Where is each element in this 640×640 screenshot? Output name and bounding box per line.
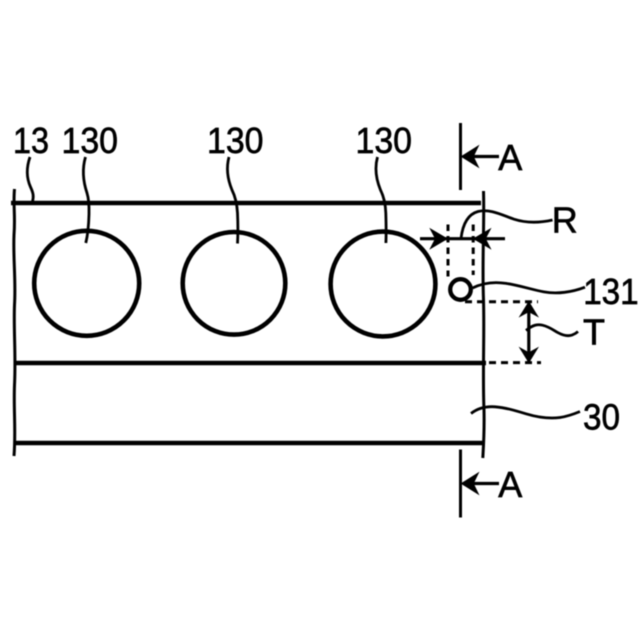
svg-text:30: 30 — [583, 397, 620, 438]
svg-text:R: R — [552, 200, 578, 241]
dashed line at bottom of hole 131 (T dimension top) — [465, 300, 538, 303]
section arrow A bottom head — [462, 473, 479, 494]
hole 130 #2 — [183, 232, 286, 335]
dimension T up arrowhead — [520, 302, 538, 316]
hole 130 #3 — [331, 232, 436, 337]
dashed line extension of boundary (T dimension bottom) — [489, 361, 541, 364]
leader line for R — [461, 211, 553, 239]
leader line for 131 — [473, 283, 586, 293]
dimension T down arrowhead — [520, 348, 538, 362]
plate 13 / layer 30 boundary edge — [16, 361, 486, 366]
dashed extension line left of R dimension — [447, 225, 450, 277]
svg-text:T: T — [583, 312, 605, 353]
svg-text:130: 130 — [62, 120, 119, 161]
plate left break edge — [14, 189, 15, 456]
leader line for 13 — [27, 157, 33, 202]
svg-text:13: 13 — [13, 120, 49, 161]
dimension T shaft — [527, 303, 530, 362]
leader line for 130 #3 — [376, 157, 386, 243]
leader line for 30 — [471, 407, 580, 418]
section arrow A bottom shaft — [463, 482, 499, 485]
layer 30 bottom edge — [16, 441, 484, 446]
dashed extension line right of R dimension — [472, 225, 475, 276]
section line A top — [459, 123, 462, 190]
plate 13 top edge — [11, 201, 481, 206]
hole 131 — [450, 279, 471, 300]
svg-text:130: 130 — [207, 120, 264, 161]
dimension R right arrowhead — [474, 229, 491, 248]
svg-text:A: A — [498, 137, 522, 178]
plate right break edge — [483, 191, 484, 458]
leader line for 130 #1 — [83, 157, 89, 243]
hole 130 #1 — [34, 231, 139, 336]
svg-text:A: A — [498, 464, 522, 505]
svg-text:131: 131 — [583, 271, 639, 312]
leader line for T — [526, 325, 578, 336]
section arrow A top shaft — [463, 155, 499, 158]
section arrow A top head — [462, 146, 479, 167]
section line A bottom — [459, 450, 462, 518]
svg-text:130: 130 — [356, 120, 413, 161]
dimension R shaft — [420, 237, 505, 240]
leader line for 130 #2 — [227, 157, 237, 244]
dimension R left arrowhead — [431, 229, 448, 248]
